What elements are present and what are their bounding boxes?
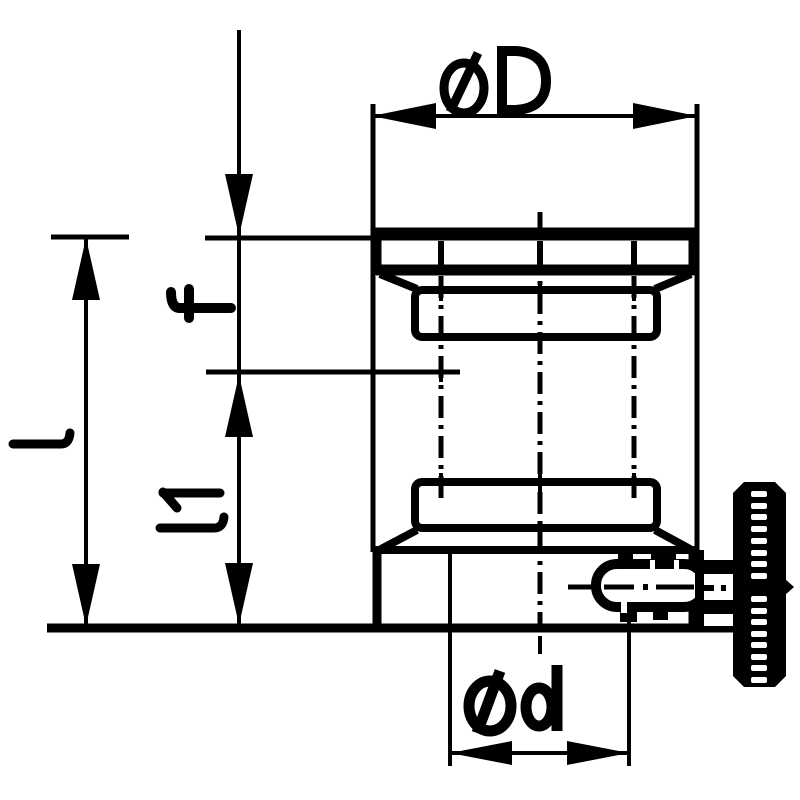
dimension line OD horizontal [372,114,697,118]
bore wall left / extension d [448,554,452,766]
top band vertical slot left [438,241,444,266]
knurled knob [733,482,786,687]
dimension line l1 [237,372,241,626]
taper top left [380,274,417,289]
shank thread band top [702,560,735,574]
base left edge [373,548,382,630]
top band vertical slot right [631,241,637,266]
top hub [415,290,657,337]
arrow l1 top [225,375,253,437]
top band vertical slot center [537,241,543,266]
centerline ticks into bottom hub [441,473,634,497]
centerline hole right [632,276,637,500]
screw boss hump bottom right [653,611,668,620]
bore wall right / extension d [627,554,631,766]
arrow OD right [633,103,697,129]
screw boss hump top right [651,549,676,561]
screw boss hump bottom left [620,611,637,622]
top band left edge [373,228,382,275]
centerline tick at f line [439,362,443,382]
screw boss capsule [596,564,705,607]
screw boss hump top left [618,549,633,561]
screw centerline segments [568,587,726,588]
label OD diameter symbol [444,53,484,113]
centerline hole left [439,276,444,500]
label f [171,289,231,318]
label OD letter D [502,51,546,110]
centerline middle [538,212,543,628]
label L [13,433,70,444]
arrow d left [450,741,512,765]
top band right edge [689,228,698,275]
label Od letter d [526,665,557,731]
taper top right [655,274,691,289]
dimension line f vertical [237,30,241,372]
taper bottom left [381,530,417,549]
bottom hub [415,482,657,528]
base right edge [689,548,698,630]
arrow L top [72,238,100,300]
thread slit top 2 [674,560,679,573]
knob centerline tip [785,579,794,595]
shank thread band bottom [702,600,735,614]
label Od diameter symbol [469,671,511,733]
taper bottom right [655,530,690,549]
label l1 [160,492,224,528]
baseline bottom of part [47,624,740,633]
base top line [374,546,695,554]
base edge bar through screw [695,550,704,632]
extension line right of OD [695,104,700,552]
shank white gap middle [704,574,735,600]
dimension line d [450,751,629,755]
shank white gap bottom [704,614,735,626]
reference line f bottom [206,370,460,375]
arrow l1 bottom [225,563,253,625]
dimension line L [84,239,88,626]
thread slit top 1 [650,560,655,573]
knurl slots [751,491,767,683]
tick line L top [51,235,129,240]
thread slit bottom [621,599,627,613]
reference line top (f start) [205,236,378,241]
top band bottom line [376,265,694,276]
arrow f top [225,174,253,236]
arrow OD left [372,103,436,129]
centerline ticks into top hub [441,282,634,301]
part top line [372,228,699,241]
arrow L bottom [72,564,100,626]
shank white gap top [704,547,735,560]
extension line left of OD [371,104,376,552]
arrow d right [567,741,629,765]
